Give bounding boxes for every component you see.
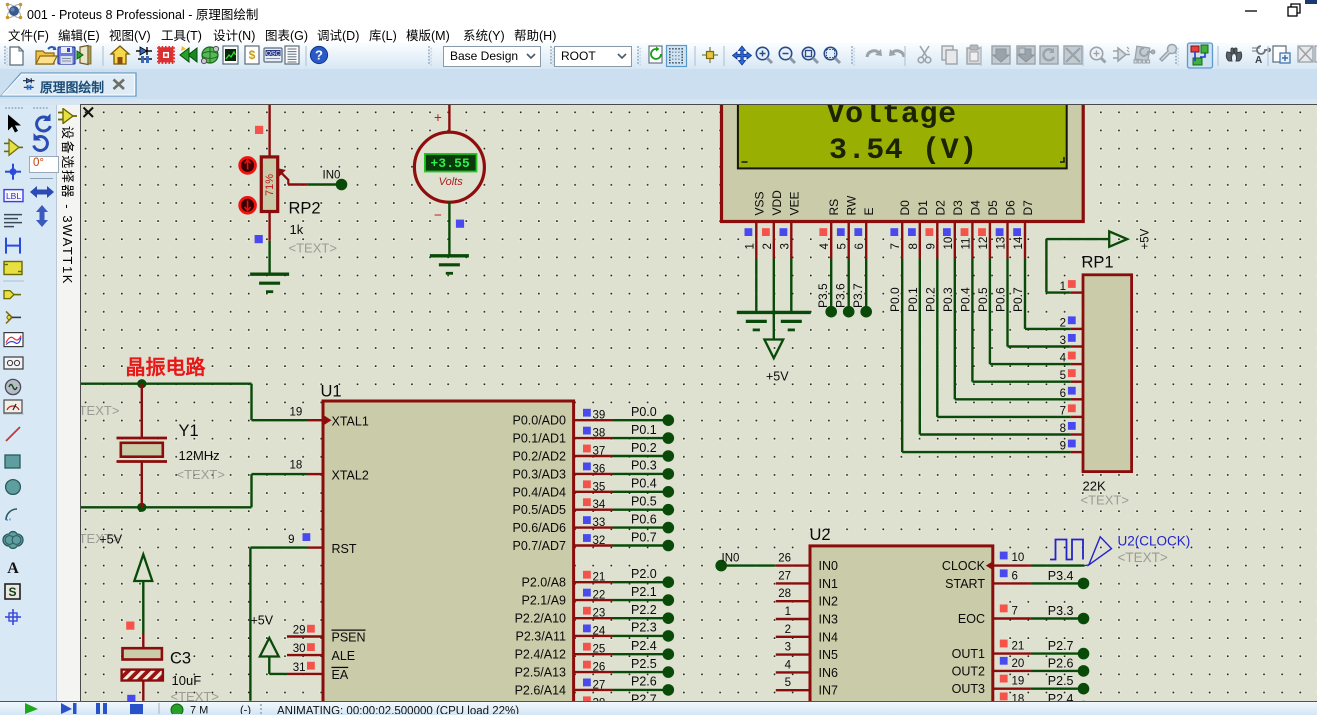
svg-text:4: 4 [819, 243, 831, 250]
combo Base Design [443, 46, 541, 67]
svg-text:31: 31 [293, 662, 306, 674]
svg-text:35: 35 [593, 481, 606, 493]
U2 pin IN6 [776, 671, 810, 673]
svg-text:−: − [434, 208, 442, 223]
svg-text:D2: D2 [933, 200, 947, 216]
svg-text:<TEXT>: <TEXT> [81, 403, 119, 418]
svg-text:P2.6: P2.6 [631, 675, 657, 689]
svg-text:3: 3 [779, 243, 791, 249]
svg-text:P3.5: P3.5 [816, 283, 830, 308]
svg-text:P2.7: P2.7 [631, 693, 657, 701]
svg-text:<TEXT>: <TEXT> [1081, 493, 1129, 508]
svg-text:12MHz: 12MHz [179, 448, 220, 463]
wire XTAL2 net [81, 506, 252, 508]
svg-text:3: 3 [785, 642, 791, 654]
svg-text:32: 32 [593, 535, 606, 547]
wire RP2 bottom [268, 212, 270, 241]
svg-text:+3.55: +3.55 [430, 156, 470, 171]
wire/node P3.5 [830, 259, 832, 309]
svg-text:+5V: +5V [100, 533, 123, 547]
wire P0.0 net to RP1 [901, 259, 903, 453]
svg-text:29: 29 [293, 625, 306, 637]
svg-text:P0.6/AD6: P0.6/AD6 [512, 521, 566, 535]
svg-text:IN4: IN4 [819, 630, 839, 644]
svg-text:10: 10 [943, 237, 955, 250]
wire C3 bottom [142, 681, 144, 701]
svg-text:14: 14 [1013, 236, 1025, 249]
svg-text:D7: D7 [1021, 200, 1035, 216]
svg-text:P2.1/A9: P2.1/A9 [522, 594, 567, 608]
device selector strip [58, 108, 78, 124]
RP1 pin 2 [1071, 328, 1083, 330]
svg-text:6: 6 [854, 243, 866, 249]
svg-text:3.54 (V): 3.54 (V) [829, 134, 978, 168]
svg-text:34: 34 [593, 499, 606, 511]
svg-text:2: 2 [785, 624, 791, 636]
left panel background [0, 105, 56, 701]
svg-text:XTAL2: XTAL2 [332, 469, 369, 483]
voltmeter display +3.55 [425, 154, 477, 172]
U2 pin IN3 [776, 618, 810, 620]
svg-text:38: 38 [593, 428, 606, 440]
svg-text:IN1: IN1 [819, 577, 839, 591]
RP1 pin 7 [1071, 416, 1083, 418]
svg-text:P0.2: P0.2 [923, 287, 937, 312]
svg-text:23: 23 [593, 608, 606, 620]
svg-text:D0: D0 [898, 200, 912, 216]
svg-text:22K: 22K [1083, 479, 1106, 494]
wire/node P3.6 [848, 259, 850, 309]
voltmeter body [414, 132, 484, 202]
svg-text:18: 18 [290, 460, 303, 472]
svg-text:P0.2/AD2: P0.2/AD2 [512, 450, 566, 464]
wire P0.3 net to RP1 [954, 259, 956, 400]
svg-text:+5V: +5V [766, 370, 789, 384]
svg-text:OUT3: OUT3 [952, 682, 985, 696]
svg-text:P0.4: P0.4 [631, 477, 657, 491]
U2 pin IN5 [776, 653, 810, 655]
svg-text:OUT1: OUT1 [952, 647, 985, 661]
svg-text:D6: D6 [1004, 200, 1018, 216]
svg-text:1: 1 [1060, 281, 1066, 293]
svg-text:U2(CLOCK): U2(CLOCK) [1118, 534, 1191, 549]
wire voltmeter top [448, 104, 450, 132]
canvas [80, 104, 1317, 701]
svg-text:P2.6: P2.6 [1048, 656, 1074, 670]
svg-text:P2.5: P2.5 [1048, 674, 1074, 688]
wire LCD VEE down [790, 259, 792, 313]
svg-text:36: 36 [593, 463, 606, 475]
svg-text:1k: 1k [290, 222, 304, 237]
svg-text:OUT2: OUT2 [952, 664, 985, 678]
svg-text:RST: RST [332, 542, 357, 556]
wire P0.4 net to RP1 [971, 259, 973, 382]
svg-text:37: 37 [593, 446, 606, 458]
svg-text:P0.6: P0.6 [994, 287, 1008, 312]
RP1 pin 6 [1071, 398, 1083, 400]
U2 pin IN0 [776, 564, 810, 566]
svg-text:E: E [862, 207, 876, 215]
svg-text:4: 4 [785, 659, 792, 671]
svg-text:Y1: Y1 [179, 422, 199, 440]
RP1 pin 1 [1071, 291, 1083, 293]
RP1 pin 3 [1071, 345, 1083, 347]
svg-text:28: 28 [593, 697, 606, 701]
svg-text:<TEXT>: <TEXT> [1118, 550, 1168, 565]
wire/node P3.7 [865, 259, 867, 309]
svg-text:P2.5/A13: P2.5/A13 [515, 666, 566, 680]
svg-text:P0.1/AD1: P0.1/AD1 [512, 432, 566, 446]
rotate/orientation panel [28, 105, 56, 245]
status bar [0, 701, 1317, 715]
pin XTAL1 [323, 415, 332, 426]
svg-text:?: ? [315, 48, 323, 63]
state square voltmeter [456, 220, 464, 228]
svg-text:$: $ [249, 48, 256, 62]
U2 pin IN7 [776, 689, 810, 691]
svg-text:PSEN: PSEN [332, 631, 366, 645]
svg-text:A: A [7, 560, 19, 577]
svg-text:P0.7: P0.7 [1011, 287, 1025, 312]
svg-text:6: 6 [1012, 570, 1018, 582]
wire RP2 wiper to IN0 [288, 183, 307, 185]
RP1 pin 4 [1071, 363, 1083, 365]
svg-text:27: 27 [593, 679, 606, 691]
svg-text:12: 12 [978, 237, 990, 250]
svg-text:U2: U2 [810, 526, 831, 544]
svg-text:P0.4/AD4: P0.4/AD4 [512, 485, 566, 499]
wire XTAL1 net [81, 383, 252, 385]
crystal Y1 [141, 384, 143, 438]
svg-text:VSS: VSS [752, 191, 766, 215]
svg-text:P0.4: P0.4 [958, 287, 972, 312]
svg-text:(-): (-) [240, 705, 251, 715]
svg-text:1: 1 [744, 243, 756, 249]
svg-text:71%: 71% [264, 174, 276, 196]
svg-text:IN2: IN2 [819, 595, 839, 609]
wire +5V to RP1 pin1 [1046, 238, 1109, 240]
svg-text:19: 19 [290, 407, 303, 419]
pin RST wire [249, 548, 251, 701]
svg-text:5: 5 [785, 677, 791, 689]
svg-text:+: + [434, 110, 442, 125]
svg-text:OUT4: OUT4 [952, 700, 985, 701]
svg-text:VDD: VDD [770, 190, 784, 216]
RP1 pin 9 [1071, 451, 1083, 453]
pin ALE stub [287, 654, 323, 656]
svg-text:+5V: +5V [251, 614, 274, 628]
svg-text:6: 6 [1060, 388, 1066, 400]
svg-text:1: 1 [785, 606, 791, 618]
sheet origin marker [84, 108, 94, 118]
svg-text:C3: C3 [170, 650, 191, 668]
generator flag U2(CLOCK) [1084, 564, 1088, 567]
svg-text:P2.6/A14: P2.6/A14 [515, 683, 566, 697]
svg-text:P2.7: P2.7 [1048, 639, 1074, 653]
svg-text:P2.4/A12: P2.4/A12 [515, 648, 566, 662]
RP2 up button [240, 158, 256, 174]
pin PSEN stub [287, 635, 323, 637]
svg-text:5: 5 [837, 243, 849, 249]
svg-text:P0.6: P0.6 [631, 512, 657, 526]
junction crystal bottom [137, 503, 146, 512]
svg-text:ALE: ALE [332, 649, 356, 663]
wire +5V to EA [268, 657, 270, 674]
ground under RP2 [250, 273, 289, 276]
title bar [0, 0, 1317, 22]
svg-text:9: 9 [288, 534, 294, 546]
svg-text:13: 13 [996, 237, 1008, 250]
svg-text:33: 33 [593, 517, 606, 529]
wire LCD VDD down [773, 259, 775, 341]
svg-text:P2.0/A8: P2.0/A8 [522, 576, 567, 590]
ground under VEE [772, 311, 811, 314]
svg-text:IN3: IN3 [819, 613, 839, 627]
tab bar [0, 69, 1317, 100]
svg-text:<TEXT>: <TEXT> [289, 241, 337, 256]
svg-text:CLOCK: CLOCK [942, 559, 986, 573]
svg-text:Voltage: Voltage [827, 105, 957, 132]
svg-text:P2.5: P2.5 [631, 657, 657, 671]
wire P0.1 net to RP1 [919, 259, 921, 435]
wire P0.6 net to RP1 [1006, 259, 1008, 347]
svg-text:9: 9 [1060, 441, 1066, 453]
svg-text:+5V: +5V [1140, 228, 1152, 249]
svg-text:P2.4: P2.4 [1048, 692, 1074, 701]
svg-text:P2.1: P2.1 [631, 585, 657, 599]
svg-text:7: 7 [1012, 606, 1018, 618]
svg-text:RP1: RP1 [1082, 254, 1114, 272]
svg-text:IN6: IN6 [819, 666, 839, 680]
svg-text:39: 39 [593, 410, 606, 422]
svg-text:P0.2: P0.2 [631, 441, 657, 455]
svg-text:P2.2: P2.2 [631, 603, 657, 617]
svg-text:P0.3: P0.3 [631, 459, 657, 473]
svg-text:P2.2/A10: P2.2/A10 [515, 612, 566, 626]
svg-text:20: 20 [1012, 658, 1025, 670]
svg-text:9: 9 [925, 243, 937, 249]
svg-text:<TEXT>: <TEXT> [177, 467, 225, 482]
svg-text:EA: EA [332, 668, 349, 682]
wire LCD VSS down [755, 259, 757, 313]
svg-text:S: S [8, 585, 16, 599]
svg-text:ANIMATING: 00:00:02.500000 (CP: ANIMATING: 00:00:02.500000 (CPU load 22%… [277, 706, 519, 715]
svg-text:P2.3: P2.3 [631, 621, 657, 635]
wire P0.5 net to RP1 [989, 259, 991, 365]
svg-text:U1: U1 [321, 383, 342, 401]
power terminal +5V right [1109, 231, 1127, 246]
svg-text:IN0: IN0 [323, 170, 341, 182]
clock waveform symbol [1050, 540, 1083, 560]
ground under voltmeter [430, 254, 469, 257]
svg-text:P2.0: P2.0 [631, 567, 657, 581]
svg-text:P0.7/AD7: P0.7/AD7 [512, 539, 566, 553]
wire P0.7 net to RP1 [1024, 259, 1026, 329]
svg-text:P0.0/AD0: P0.0/AD0 [512, 414, 566, 428]
svg-text:2: 2 [1060, 317, 1066, 329]
state square C3 top [126, 622, 134, 630]
svg-text:XTAL1: XTAL1 [332, 415, 369, 429]
svg-text:5: 5 [1060, 370, 1066, 382]
svg-text:P0.3: P0.3 [941, 287, 955, 312]
LCD screen [738, 96, 1067, 168]
svg-text:21: 21 [593, 572, 606, 584]
svg-text:2: 2 [762, 243, 774, 249]
svg-text:P0.5: P0.5 [631, 495, 657, 509]
svg-text:7: 7 [890, 243, 902, 249]
svg-text:RP2: RP2 [289, 200, 321, 218]
svg-text:28: 28 [778, 588, 791, 600]
svg-text:11: 11 [960, 238, 972, 250]
potentiometer RP2 [261, 157, 288, 212]
svg-text:A: A [1255, 55, 1262, 66]
svg-text:10: 10 [1012, 552, 1025, 564]
svg-text:7: 7 [1060, 405, 1066, 417]
svg-text:LBL: LBL [6, 191, 21, 201]
svg-text:26: 26 [593, 662, 606, 674]
svg-text:D4: D4 [968, 200, 982, 216]
svg-text:30: 30 [293, 643, 306, 655]
menu bar [0, 22, 1317, 43]
svg-text:3: 3 [1060, 335, 1066, 347]
svg-text:P0.1: P0.1 [906, 287, 920, 312]
svg-text:24: 24 [593, 625, 606, 637]
node IN0 left [715, 560, 727, 572]
svg-text:19: 19 [1012, 676, 1025, 688]
svg-text:P3.7: P3.7 [851, 283, 865, 308]
svg-text:IN7: IN7 [819, 684, 839, 698]
state square C3 bottom [127, 695, 135, 703]
svg-text:晶振电路: 晶振电路 [126, 355, 207, 379]
svg-text:22: 22 [593, 590, 606, 602]
svg-text:START: START [945, 577, 985, 591]
svg-text:P0.5/AD5: P0.5/AD5 [512, 503, 566, 517]
svg-text:VEE: VEE [787, 191, 801, 215]
RP2 down button [240, 197, 256, 213]
tab schematic icon [23, 77, 35, 91]
resistor pack RP1 [1083, 275, 1132, 472]
svg-text:25: 25 [593, 644, 606, 656]
wire IN0 net [721, 564, 776, 566]
svg-text:18: 18 [1012, 694, 1025, 702]
svg-text:8: 8 [1060, 423, 1066, 435]
svg-text:P0.7: P0.7 [631, 530, 657, 544]
svg-text:EOC: EOC [958, 612, 985, 626]
toolbar row [0, 43, 1317, 70]
U2 pin IN2 [776, 600, 810, 602]
svg-text:P3.6: P3.6 [834, 283, 848, 308]
svg-text:D1: D1 [916, 200, 930, 216]
U2 pin IN4 [776, 636, 810, 638]
wire +5V to C3 [142, 581, 144, 634]
node IN0 [336, 179, 348, 191]
wire voltmeter bottom [448, 202, 450, 255]
svg-text:IN0: IN0 [819, 559, 839, 573]
svg-text:27: 27 [778, 570, 791, 582]
wire to RP2 top [268, 104, 270, 157]
svg-text:P3.3: P3.3 [1048, 604, 1074, 618]
RP1 pin 8 [1071, 433, 1083, 435]
svg-text:Volts: Volts [439, 176, 464, 188]
svg-text:OSC: OSC [266, 51, 280, 58]
RP1 pin 5 [1071, 381, 1083, 383]
svg-text:D5: D5 [986, 200, 1000, 216]
svg-text:10uF: 10uF [172, 673, 202, 688]
svg-text:P0.3/AD3: P0.3/AD3 [512, 467, 566, 481]
ground under VSS [737, 311, 776, 314]
state square RP2 top [255, 126, 263, 134]
svg-text:4: 4 [1060, 353, 1067, 365]
state square RP2 bottom [255, 235, 263, 243]
svg-text:P0.0: P0.0 [631, 405, 657, 419]
svg-text:8: 8 [908, 243, 920, 249]
svg-text:IN0: IN0 [722, 553, 740, 565]
LCD1 module body [722, 92, 1084, 222]
svg-text:P3.4: P3.4 [1048, 569, 1074, 583]
svg-text:D3: D3 [951, 200, 965, 216]
MCU U1 body [323, 401, 574, 715]
svg-text:IN5: IN5 [819, 648, 839, 662]
wire P0.2 net to RP1 [936, 259, 938, 417]
svg-text:P2.3/A11: P2.3/A11 [515, 629, 566, 643]
power terminal +5V down arrow [764, 340, 783, 359]
svg-text:P0.0: P0.0 [888, 287, 902, 312]
capacitor C3 [123, 648, 162, 659]
svg-text:P0.5: P0.5 [976, 287, 990, 312]
svg-text:<TEXT>: <TEXT> [171, 689, 219, 701]
svg-text:7 M: 7 M [190, 705, 208, 715]
combo ROOT [554, 46, 632, 67]
svg-text:21: 21 [1012, 641, 1025, 653]
ADC U2 body [810, 546, 993, 715]
svg-text:P0.1: P0.1 [631, 423, 657, 437]
junction crystal top [137, 379, 146, 388]
svg-text:26: 26 [778, 553, 791, 565]
U2 pin IN1 [776, 582, 810, 584]
svg-text:RW: RW [845, 195, 859, 215]
svg-text:P2.4: P2.4 [631, 639, 657, 653]
svg-text:RS: RS [827, 199, 841, 216]
